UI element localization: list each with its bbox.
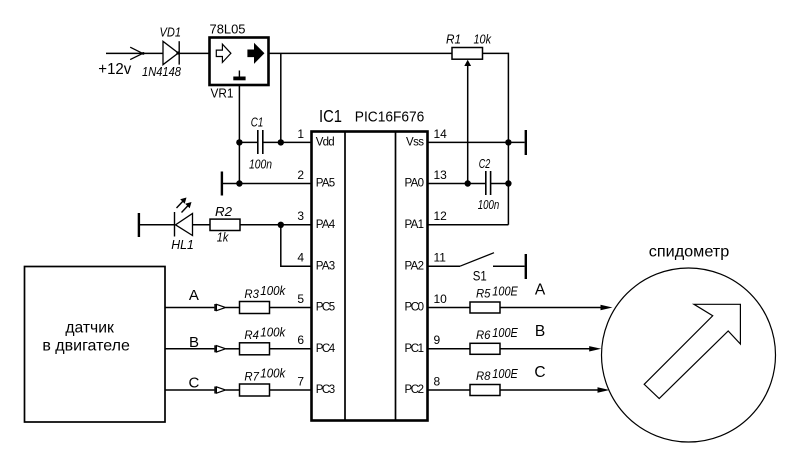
pin labels right column — [405, 137, 425, 397]
svg-text:IC1: IC1 — [319, 106, 342, 126]
svg-text:B: B — [535, 323, 545, 340]
svg-text:100k: 100k — [260, 366, 286, 381]
wire PA4 to PA3 branch — [281, 225, 311, 266]
svg-text:PA4: PA4 — [316, 219, 336, 231]
svg-text:PC2: PC2 — [405, 384, 425, 396]
svg-text:C2: C2 — [479, 156, 491, 171]
wire Vdd branch down — [280, 53, 282, 142]
svg-text:13: 13 — [434, 168, 448, 182]
svg-text:R7: R7 — [244, 369, 260, 383]
svg-text:1: 1 — [297, 127, 304, 141]
svg-text:R8: R8 — [476, 369, 491, 383]
svg-text:1k: 1k — [217, 230, 229, 245]
svg-text:8: 8 — [434, 374, 441, 388]
svg-text:PA0: PA0 — [405, 178, 425, 190]
resistor R4 — [240, 324, 286, 355]
svg-text:S1: S1 — [473, 268, 487, 284]
svg-text:датчик: датчик — [65, 320, 114, 337]
svg-text:100k: 100k — [260, 324, 286, 339]
svg-text:в двигателе: в двигателе — [42, 338, 130, 355]
svg-text:PC3: PC3 — [316, 384, 336, 396]
resistor R5 — [470, 284, 518, 314]
wire R4 to IC — [270, 348, 312, 350]
svg-text:PC4: PC4 — [316, 343, 336, 355]
wire sensor row R4 — [165, 348, 214, 350]
wire to R7 — [226, 389, 240, 391]
wire R3 to IC — [270, 307, 312, 309]
svg-text:R3: R3 — [244, 287, 259, 301]
wire R8 to speedometer — [500, 389, 599, 391]
resistor R3 — [240, 283, 286, 314]
svg-text:4: 4 — [297, 251, 304, 265]
svg-text:спидометр: спидометр — [649, 243, 730, 260]
capacitor C2 — [478, 156, 500, 212]
svg-text:PC1: PC1 — [405, 343, 425, 355]
capacitor C1 — [249, 114, 272, 171]
svg-text:1N4148: 1N4148 — [142, 64, 182, 79]
svg-text:VR1: VR1 — [211, 87, 234, 101]
svg-text:10: 10 — [434, 292, 448, 306]
svg-text:3: 3 — [297, 209, 304, 223]
svg-text:C: C — [188, 375, 199, 392]
svg-text:9: 9 — [434, 333, 441, 347]
svg-text:R6: R6 — [476, 328, 491, 342]
svg-text:100n: 100n — [249, 156, 272, 171]
svg-text:14: 14 — [434, 127, 448, 141]
resistor R6 — [470, 325, 518, 355]
svg-text:R2: R2 — [215, 204, 232, 219]
svg-text:7: 7 — [297, 374, 304, 388]
wire R5 to speedometer — [500, 307, 602, 309]
junction PA5 / ground — [236, 180, 242, 186]
potentiometer R1 — [446, 32, 492, 183]
svg-text:A: A — [189, 287, 199, 304]
resistor R8 — [470, 366, 518, 396]
svg-text:PA2: PA2 — [405, 260, 425, 272]
svg-text:C: C — [534, 364, 545, 381]
junction PA0 / C2 right — [505, 180, 511, 186]
junction dots — [236, 139, 511, 228]
svg-text:Vss: Vss — [406, 137, 424, 149]
svg-text:5: 5 — [297, 292, 304, 306]
svg-text:100n: 100n — [478, 197, 500, 212]
svg-text:PIC16F676: PIC16F676 — [355, 109, 425, 126]
svg-text:PA3: PA3 — [316, 260, 336, 272]
svg-text:100k: 100k — [260, 283, 286, 298]
svg-text:Vdd: Vdd — [316, 137, 335, 149]
resistor R7 — [240, 366, 286, 397]
wire sensor row R3 — [165, 307, 214, 309]
wire LED to R2 — [193, 224, 211, 226]
IC1 PIC16F676 — [312, 106, 428, 421]
wire VR1 ground down — [238, 86, 240, 184]
wire regulator to R1 — [269, 52, 453, 54]
svg-text:78L05: 78L05 — [210, 23, 246, 37]
svg-text:PA1: PA1 — [405, 219, 425, 231]
svg-text:+12v: +12v — [98, 61, 131, 78]
wire sensor row R7 — [165, 389, 214, 391]
svg-text:100E: 100E — [492, 284, 518, 299]
wire pin2 PA5 — [222, 183, 311, 185]
wire R7 to IC — [270, 389, 312, 391]
switch S1 — [428, 253, 526, 284]
svg-text:10k: 10k — [474, 32, 492, 46]
svg-text:PA5: PA5 — [316, 178, 336, 190]
wire pin14 Vss — [428, 141, 525, 143]
node +12v — [98, 61, 131, 78]
svg-text:100E: 100E — [492, 366, 518, 381]
junction PA0 / R1 wiper — [465, 180, 471, 186]
sensor box — [25, 267, 166, 423]
resistor R2 — [210, 204, 240, 245]
wire R2 to PA4 — [240, 224, 311, 226]
svg-text:A: A — [535, 282, 546, 299]
svg-text:100E: 100E — [492, 325, 518, 340]
svg-text:2: 2 — [297, 168, 304, 182]
junction Vdd / pin 1 — [278, 139, 284, 145]
svg-text:11: 11 — [434, 251, 447, 265]
pin labels left column — [316, 137, 336, 397]
svg-text:R5: R5 — [476, 287, 491, 301]
LED HL1 — [171, 198, 194, 252]
svg-text:12: 12 — [434, 209, 448, 223]
svg-text:PC0: PC0 — [405, 302, 425, 314]
pin numbers right — [434, 127, 448, 389]
ground bar PA5 — [221, 172, 223, 196]
wire pin1 Vdd — [239, 141, 257, 143]
wire pin12 PA1 — [428, 224, 508, 226]
wire diode to regulator — [179, 52, 209, 54]
svg-text:R1: R1 — [446, 32, 461, 46]
svg-text:PC5: PC5 — [316, 302, 336, 314]
svg-text:VD1: VD1 — [160, 25, 182, 39]
pin numbers left — [297, 127, 304, 389]
wire IC to R6 — [428, 348, 470, 350]
svg-text:C1: C1 — [251, 114, 263, 129]
diode VD1 — [142, 25, 182, 79]
buffer arrow R4 row — [215, 345, 226, 352]
wire HL1 cathode — [139, 224, 175, 226]
svg-text:HL1: HL1 — [171, 237, 194, 252]
wire R1 right branch — [483, 53, 509, 224]
buffer arrow R7 row — [215, 387, 226, 394]
wire +12v input — [106, 52, 163, 54]
regulator VR1 78L05 — [210, 23, 269, 101]
junction Vdd / C1 left — [236, 139, 242, 145]
svg-text:6: 6 — [297, 333, 304, 347]
speedometer needle arrow — [644, 304, 740, 398]
wire R6 to speedometer — [500, 348, 590, 350]
wire IC to R8 — [428, 389, 470, 391]
speedometer circle — [602, 243, 776, 442]
wire IC to R5 — [428, 307, 470, 309]
wire to R3 — [226, 307, 240, 309]
ground bar Vss — [525, 130, 527, 155]
wire pin13 PA0 — [428, 183, 486, 185]
junction Vss / R1 right — [505, 139, 511, 145]
ground bar HL1 — [138, 213, 140, 237]
wire to R4 — [226, 348, 240, 350]
svg-text:R4: R4 — [244, 328, 259, 342]
junction PA4 / PA3 branch — [278, 222, 284, 228]
buffer arrow R3 row — [215, 304, 226, 311]
